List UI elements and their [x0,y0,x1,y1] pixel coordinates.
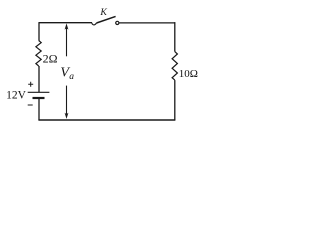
voltage arrow Va upper arrowhead [65,23,69,29]
resistor 10ohm zigzag [172,52,177,81]
wire right vertical lower [174,80,176,120]
svg-text:12V: 12V [6,90,27,102]
wire top-right horizontal [119,22,175,24]
battery polarity plus sign [28,82,33,87]
wire right vertical upper [174,22,176,51]
wire left vertical upper [38,22,40,40]
wire bottom horizontal [38,119,175,121]
switch K right terminal circle [116,21,119,24]
voltage arrow Va upper shaft [66,28,68,56]
voltage arrow Va lower arrowhead [65,113,69,119]
svg-text:2Ω: 2Ω [43,51,58,65]
wire left vertical (battery to resistor) [38,66,40,92]
battery polarity minus sign [28,104,33,106]
svg-text:Va: Va [60,66,74,82]
switch K left contact hook [92,23,97,25]
battery long thin plate (positive) [28,91,50,93]
switch K blade [97,16,116,23]
voltage arrow Va lower shaft [66,86,68,114]
svg-text:10Ω: 10Ω [179,68,198,80]
battery short thick plate (negative) [33,97,45,99]
wire left vertical lower (battery to bottom) [38,99,40,120]
resistor 2ohm zigzag [36,41,41,67]
svg-text:K: K [99,7,107,18]
wire top-left horizontal [39,22,92,24]
